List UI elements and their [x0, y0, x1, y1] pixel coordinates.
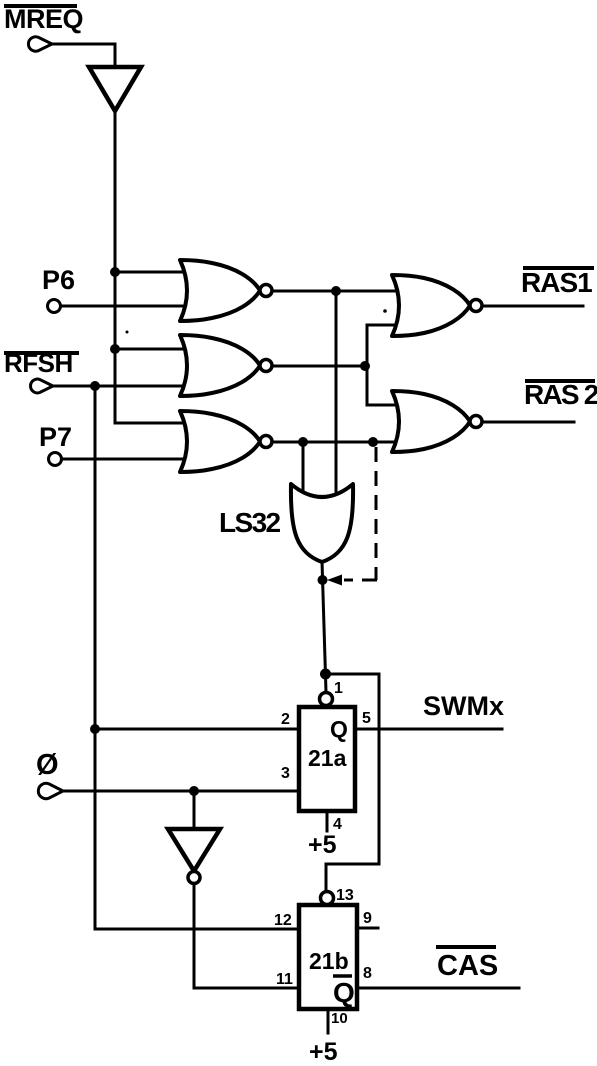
svg-text:21b: 21b: [309, 948, 349, 974]
svg-text:Ø: Ø: [36, 749, 59, 781]
svg-text:CAS: CAS: [437, 950, 498, 982]
svg-text:21a: 21a: [308, 745, 347, 771]
svg-text:10: 10: [331, 1010, 348, 1027]
svg-text:5: 5: [362, 710, 371, 727]
svg-text:8: 8: [363, 965, 372, 982]
svg-text:9: 9: [363, 910, 372, 927]
svg-text:Q: Q: [333, 977, 355, 1008]
svg-text:12: 12: [274, 912, 292, 929]
svg-text:4: 4: [333, 816, 342, 833]
svg-text:Q: Q: [330, 716, 348, 742]
svg-text:3: 3: [281, 765, 290, 782]
svg-text:LS32: LS32: [219, 507, 281, 538]
svg-text:2: 2: [281, 711, 290, 728]
svg-text:RAS 2: RAS 2: [524, 379, 597, 410]
svg-text:+5: +5: [309, 1038, 338, 1066]
svg-text:+5: +5: [308, 831, 337, 859]
svg-text:SWMx: SWMx: [423, 691, 504, 721]
svg-text:11: 11: [276, 971, 293, 988]
svg-text:MREQ: MREQ: [4, 4, 83, 34]
svg-text:13: 13: [336, 887, 354, 904]
svg-text:1: 1: [334, 680, 343, 697]
svg-text:P6: P6: [42, 265, 75, 295]
svg-text:P7: P7: [39, 422, 72, 452]
svg-text:RAS1: RAS1: [521, 267, 592, 298]
